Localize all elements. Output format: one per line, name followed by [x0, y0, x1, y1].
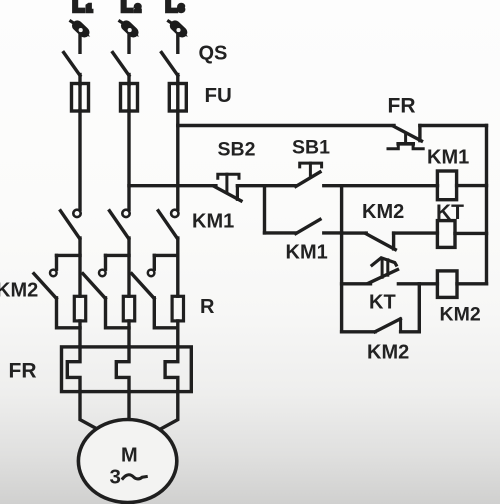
- contactor KM1 main contact phase 3: [171, 210, 178, 217]
- svg-text:3: 3: [179, 4, 185, 15]
- svg-text:L: L: [166, 0, 178, 17]
- FR NC contact: [394, 126, 422, 141]
- wire FR to motor phase 1: [80, 392, 106, 434]
- control line from L2: [129, 184, 216, 187]
- contactor KM2 contact phase 2: [99, 270, 106, 277]
- switch QS blade phase 1: [64, 53, 80, 76]
- svg-text:L: L: [73, 0, 85, 17]
- fuse FU phase 1: [72, 84, 89, 112]
- motor M: [78, 420, 176, 503]
- svg-text:KT: KT: [369, 292, 396, 314]
- right rail: [485, 126, 488, 284]
- FR heater element phase 2: [116, 347, 129, 392]
- wire resistor to FR phase 1: [78, 321, 81, 347]
- wire KM1 contact to resistor phase 3: [176, 238, 179, 296]
- resistor R phase 1: [74, 296, 85, 321]
- wire QS to FU phase 2: [127, 75, 130, 85]
- contactor KM2 contact phase 1: [50, 270, 57, 277]
- node A drop for KM1 aux: [263, 186, 266, 233]
- wire KM1 contact to resistor phase 2: [127, 238, 130, 296]
- wire L1 to QS: [78, 35, 81, 53]
- FR heater element phase 1: [67, 347, 80, 392]
- KM2 self-hold NO contact: [342, 330, 375, 333]
- contactor KM1 main contact phase 2: [122, 210, 129, 217]
- svg-text:FR: FR: [9, 360, 37, 383]
- svg-text:M: M: [121, 445, 138, 467]
- KM2 bypass branch phase 2: [106, 254, 130, 257]
- KT delayed contact: [342, 282, 371, 285]
- svg-text:R: R: [200, 296, 215, 318]
- thermal relay FR box: [62, 347, 192, 392]
- svg-text:KM2: KM2: [367, 342, 409, 364]
- svg-text:L: L: [121, 0, 133, 17]
- wire resistor to FR phase 3: [176, 321, 179, 347]
- switch QS blade phase 2: [113, 53, 129, 76]
- wire FR to motor phase 3: [152, 392, 178, 434]
- svg-text:KM2: KM2: [0, 280, 38, 302]
- time relay KT coil: [437, 221, 455, 248]
- svg-text:QS: QS: [199, 43, 228, 65]
- resistor R phase 3: [172, 296, 183, 321]
- switch QS blade phase 3: [162, 53, 178, 76]
- wire L2 to QS: [127, 35, 130, 53]
- contactor KM1 main contact phase 1: [73, 210, 80, 217]
- svg-text:SB2: SB2: [218, 139, 256, 161]
- wire L3 to QS: [176, 35, 179, 53]
- svg-text:3: 3: [110, 466, 121, 489]
- wire SB1 to KM1 coil: [324, 184, 438, 187]
- svg-text:KM1: KM1: [427, 147, 469, 169]
- wire resistor to FR phase 2: [127, 321, 130, 347]
- pushbutton SB2 (NC): [218, 174, 239, 178]
- wire KM1 contact to resistor phase 1: [78, 238, 81, 296]
- svg-text:2: 2: [135, 4, 141, 15]
- wire FR to motor phase 2: [127, 392, 130, 421]
- svg-text:1: 1: [87, 4, 93, 15]
- resistor R phase 2: [123, 296, 134, 321]
- wire FU to KM1 contact phase 3: [176, 111, 179, 210]
- control line from L3: [178, 124, 394, 127]
- svg-text:KM1: KM1: [286, 242, 328, 264]
- svg-text:SB1: SB1: [292, 137, 330, 159]
- KM2 bypass branch phase 1: [57, 254, 81, 257]
- contactor KM2 contact phase 3: [148, 270, 155, 277]
- fuse FU phase 3: [169, 84, 186, 112]
- supply arrow L1: [71, 21, 90, 36]
- svg-text:KM2: KM2: [440, 304, 481, 326]
- wire FU to KM1 contact phase 2: [127, 111, 130, 210]
- svg-text:FR: FR: [388, 95, 416, 118]
- wire SB2 to SB1: [237, 184, 295, 187]
- contactor KM2 coil: [437, 271, 457, 298]
- supply arrow L3: [169, 21, 188, 36]
- svg-text:KM2: KM2: [362, 201, 404, 223]
- svg-text:KM1: KM1: [192, 211, 234, 233]
- contactor KM1 coil: [437, 171, 456, 200]
- node bus vertical: [340, 186, 343, 332]
- svg-text:KT: KT: [436, 201, 464, 224]
- KM2 bypass branch phase 3: [154, 254, 178, 257]
- KM2 NC interlock contact: [342, 231, 367, 234]
- wire QS to FU phase 1: [78, 75, 81, 85]
- svg-text:FU: FU: [205, 84, 232, 107]
- KM1 auxiliary contact (self hold): [265, 231, 296, 234]
- wire QS to FU phase 3: [176, 75, 179, 85]
- fuse FU phase 2: [121, 84, 138, 112]
- wire FR to right rail: [420, 124, 487, 127]
- FR heater element phase 3: [165, 347, 178, 392]
- supply arrow L2: [120, 21, 139, 36]
- wire FU to KM1 contact phase 1: [78, 111, 81, 210]
- pushbutton SB1 (NO): [300, 163, 322, 167]
